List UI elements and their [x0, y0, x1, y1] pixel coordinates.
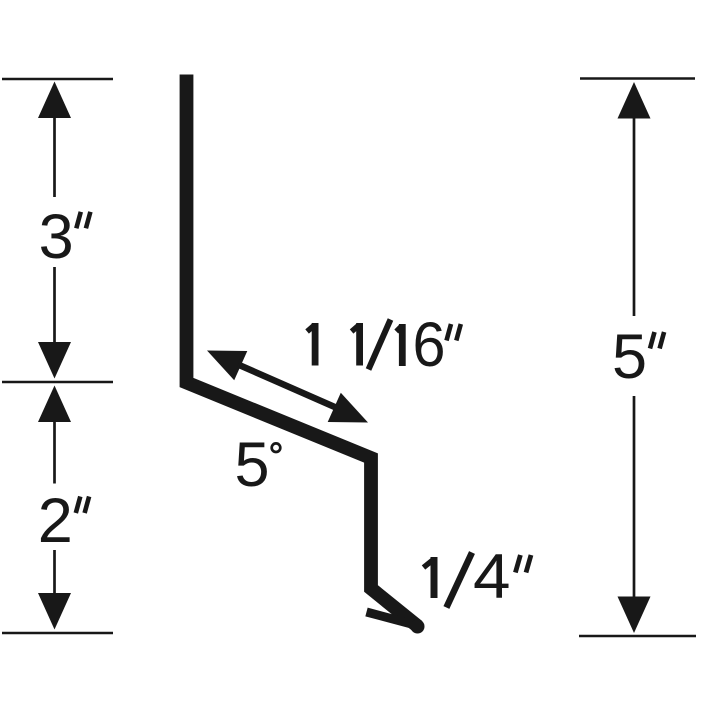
svg-text:5: 5 — [234, 430, 269, 500]
svg-text:2: 2 — [38, 486, 73, 556]
label 3 inch quote mark — [76, 212, 90, 229]
dimension 2-inch arrow down — [38, 593, 71, 630]
diagonal dimension shaft — [238, 365, 337, 409]
dimension 3-inch arrow down — [38, 342, 71, 379]
flashing profile (fascia trim cross-section) — [187, 75, 419, 627]
svg-text:5: 5 — [612, 322, 647, 392]
dimension 2-inch shaft lower — [53, 550, 56, 597]
profile drip tip — [411, 620, 425, 634]
dimension 5-inch shaft upper — [633, 116, 636, 316]
label 1/4 inch : fraction slash — [446, 553, 472, 608]
diagonal dimension arrowhead right — [328, 393, 368, 423]
label 2 inch quote mark — [76, 497, 89, 514]
diagonal dimension arrowhead left — [207, 351, 247, 381]
label 1 1/16 inch : digit 1 of 16 — [396, 324, 402, 366]
svg-text:4: 4 — [473, 542, 511, 612]
tick line top-right — [580, 77, 695, 80]
tick line middle-left — [2, 381, 113, 384]
label 1 1/16 inch : fraction slash — [369, 320, 391, 370]
profile hem return lip — [367, 612, 414, 625]
label 1 1/16 inch : first digit 1 — [307, 323, 315, 366]
label 1/4 inch : quote mark — [515, 555, 531, 573]
dimension 3-inch shaft upper — [53, 115, 56, 197]
tick line bottom-left — [2, 632, 113, 635]
dimension 5-inch shaft lower — [633, 396, 636, 599]
tick line top-left — [2, 78, 113, 81]
dimension 3-inch shaft lower — [53, 267, 56, 346]
label 1 1/16 inch : quote mark — [447, 324, 461, 341]
label 1 1/16 inch : second digit 1 — [352, 323, 360, 366]
svg-text:3: 3 — [39, 202, 74, 272]
dimension 5-inch arrow down — [618, 597, 651, 634]
dimension 2-inch shaft upper — [53, 419, 56, 484]
label 5 inch quote mark — [650, 332, 664, 349]
label 5 degrees ring — [272, 443, 281, 452]
svg-text:6: 6 — [413, 310, 446, 380]
label 1/4 inch : digit 1 — [424, 557, 435, 598]
dimension 3-inch arrow up — [38, 82, 71, 119]
tick line bottom-right — [579, 635, 696, 638]
dimension 5-inch arrow up — [618, 82, 651, 119]
dimension 2-inch arrow up — [38, 386, 71, 423]
